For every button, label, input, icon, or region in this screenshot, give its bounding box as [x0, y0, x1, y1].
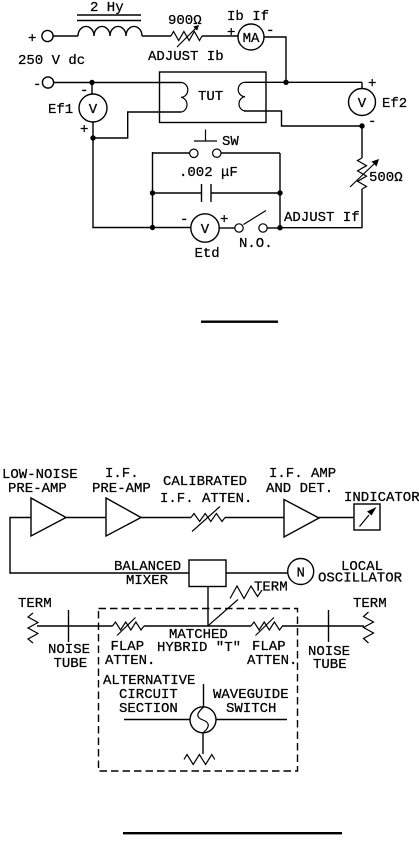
wire Ef1 junction to TUT primary bottom	[93, 112, 181, 138]
label FLAP ATTEN. right	[247, 639, 297, 669]
label LOCAL OSCILLATOR	[318, 559, 403, 587]
amplifier A1 low-noise pre-amp	[31, 498, 66, 536]
terminal - (250V dc negative)	[33, 77, 54, 93]
waveguide switch S1	[190, 707, 216, 733]
wire flap right to noise tube right	[282, 625, 329, 627]
junction dot A	[283, 80, 288, 85]
wire A3 to indicator	[319, 517, 354, 519]
wire noise tube right to term	[329, 625, 365, 627]
junction dot at Ef1 top	[89, 80, 94, 85]
label FLAP ATTEN. left	[105, 639, 155, 669]
junction dot below Ef1	[90, 135, 95, 140]
figure divider 2	[123, 832, 342, 834]
junction dot right of N.O.	[277, 225, 282, 230]
svg-text:PRE-AMP: PRE-AMP	[92, 481, 151, 497]
termination right	[364, 612, 374, 643]
wire Ef1 bottom to Etd row	[93, 122, 191, 228]
TUT box	[160, 72, 267, 123]
svg-text:V: V	[358, 96, 367, 112]
svg-text:Ef1: Ef1	[48, 102, 73, 118]
svg-text:HYBRID "T": HYBRID "T"	[157, 640, 241, 656]
wire flap left to hybrid T	[144, 625, 251, 627]
svg-text:MA: MA	[243, 31, 260, 47]
resistor R 900 ohm (adjustable)	[171, 25, 202, 47]
label LOW-NOISE PRE-AMP	[2, 467, 78, 497]
svg-text:900Ω: 900Ω	[168, 13, 202, 29]
label CALIBRATED I.F. ATTEN.	[160, 474, 252, 507]
dashed box alternative circuit section	[99, 609, 298, 772]
switch N.O.	[219, 211, 280, 233]
wire inductor to R 900	[142, 35, 171, 37]
wire junction down to Ef1	[91, 83, 93, 95]
svg-text:I.F. ATTEN.: I.F. ATTEN.	[160, 491, 252, 507]
ammeter MA	[238, 24, 264, 50]
svg-text:ATTEN.: ATTEN.	[247, 653, 297, 669]
hybrid T terminated arm	[208, 586, 262, 626]
wire A2 to attenuator	[141, 517, 191, 519]
wire waveguide switch top stub	[203, 684, 205, 707]
voltmeter Etd	[191, 214, 219, 242]
svg-text:TERM: TERM	[353, 596, 387, 612]
svg-text:250 V dc: 250 V dc	[18, 53, 85, 69]
svg-text:TUT: TUT	[198, 89, 223, 105]
svg-text:-: -	[33, 77, 41, 93]
svg-text:SW: SW	[222, 134, 239, 150]
wire mixer to local oscillator	[226, 572, 288, 574]
mixer box	[189, 560, 226, 587]
TUT secondary winding	[238, 82, 245, 111]
pushbutton SW actuator	[194, 130, 217, 142]
wire SW loop left vertical	[152, 152, 154, 228]
svg-text:+: +	[28, 31, 36, 47]
figure divider 1	[201, 321, 278, 323]
label ALTERNATIVE CIRCUIT SECTION	[103, 673, 195, 717]
svg-text:Ef2: Ef2	[382, 96, 407, 112]
voltmeter Ef2	[349, 89, 376, 116]
wire A1 to A2	[66, 517, 106, 519]
svg-text:-: -	[368, 114, 376, 130]
voltmeter Ef1	[79, 94, 107, 122]
wire 500 ohm to N.O. junction	[280, 189, 362, 228]
junction dot cap right	[277, 190, 282, 195]
switch SW contacts	[153, 149, 281, 158]
terminal + (250V dc positive)	[28, 30, 53, 47]
svg-text:+: +	[220, 212, 228, 228]
wire Ef2 to 500 ohm	[361, 126, 363, 158]
wire waveguide switch right stub	[216, 719, 287, 721]
svg-text:TERM: TERM	[254, 580, 288, 596]
wire SW loop right vertical	[279, 153, 281, 228]
iron core lines	[77, 15, 141, 21]
svg-text:SECTION: SECTION	[119, 701, 178, 717]
wire TUT secondary top to junction A	[245, 81, 362, 83]
termination below switch	[184, 755, 215, 765]
wire terminal+ to inductor	[53, 35, 78, 37]
svg-text:AND DET.: AND DET.	[266, 481, 333, 497]
indicator meter M1	[354, 504, 380, 530]
wire terminal- to TUT primary top	[54, 82, 182, 84]
svg-text:I.F.: I.F.	[105, 466, 139, 482]
wire down to Ef2	[361, 82, 363, 88]
label NOISE TUBE left	[48, 642, 90, 672]
attenuator calibrated i.f.	[191, 507, 225, 532]
inductor L1 2 Hy	[78, 26, 142, 36]
amplifier A3 i.f. amp and detector	[284, 500, 319, 538]
svg-text:I.F. AMP: I.F. AMP	[269, 466, 336, 482]
label I.F. PRE-AMP	[92, 466, 151, 497]
svg-text:MIXER: MIXER	[126, 573, 169, 589]
noise tube right bar	[328, 610, 330, 642]
svg-text:Etd: Etd	[195, 246, 220, 262]
svg-text:ADJUST Ib: ADJUST Ib	[148, 49, 224, 65]
label WAVEGUIDE SWITCH	[213, 687, 289, 717]
svg-text:500Ω: 500Ω	[369, 170, 403, 186]
amplifier A2 i.f. pre-amp	[106, 498, 141, 536]
svg-text:PRE-AMP: PRE-AMP	[8, 481, 67, 497]
oscillator N local	[288, 559, 314, 585]
svg-text:TUBE: TUBE	[54, 656, 88, 672]
wire noise tube into dashed box	[69, 625, 113, 627]
label BALANCED MIXER	[114, 559, 181, 589]
svg-text:ATTEN.: ATTEN.	[105, 653, 155, 669]
junction dot Ef2 bottom	[359, 123, 364, 128]
wire waveguide switch left stub	[124, 719, 190, 721]
label MATCHED HYBRID "T"	[157, 627, 241, 656]
svg-text:OSCILLATOR: OSCILLATOR	[318, 571, 403, 587]
wire A1 input from mixer	[10, 518, 189, 574]
termination left	[28, 613, 38, 643]
wire R900 to MA meter	[202, 35, 238, 37]
wire MA to junction A	[264, 37, 286, 82]
wire switch down to termination	[202, 733, 204, 754]
svg-text:CALIBRATED: CALIBRATED	[163, 474, 247, 490]
svg-text:Ib If: Ib If	[227, 9, 269, 25]
svg-text:TUBE: TUBE	[313, 657, 347, 673]
svg-text:ADJUST If: ADJUST If	[284, 210, 360, 226]
svg-text:N.O.: N.O.	[239, 236, 273, 252]
svg-text:2 Hy: 2 Hy	[90, 0, 124, 16]
attenuator flap right	[251, 618, 283, 636]
wire left term to noise tube	[37, 625, 69, 627]
wire TUT secondary bottom to Ef2 bottom	[244, 111, 362, 126]
noise tube left bar	[68, 610, 70, 642]
junction dot cap left	[150, 190, 155, 195]
rheostat 500 ohm	[350, 158, 379, 189]
wire attenuator to A3	[225, 517, 284, 519]
svg-text:SWITCH: SWITCH	[226, 701, 276, 717]
svg-text:+: +	[368, 76, 376, 92]
svg-text:.002 μF: .002 μF	[179, 165, 238, 181]
label I.F. AMP AND DET.	[266, 466, 336, 497]
wire mixer down to hybrid T	[207, 587, 209, 626]
capacitor C .002uF	[153, 184, 281, 202]
attenuator flap left	[113, 618, 145, 636]
svg-text:V: V	[201, 222, 210, 238]
junction dot left of Etd	[150, 225, 155, 230]
TUT primary winding	[181, 83, 188, 113]
label NOISE TUBE right	[308, 644, 350, 673]
svg-text:-: -	[180, 212, 188, 228]
svg-text:+: +	[227, 25, 235, 41]
svg-text:TERM: TERM	[18, 596, 52, 612]
svg-text:V: V	[89, 102, 98, 118]
svg-text:+: +	[80, 122, 88, 138]
svg-text:N: N	[296, 566, 304, 582]
